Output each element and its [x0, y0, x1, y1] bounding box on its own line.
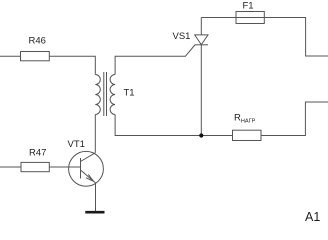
thyristor VS1 [195, 18, 208, 45]
wire T1 secondary top to VS1 gate [115, 45, 195, 75]
transformer T1 core [104, 72, 107, 116]
resistor Rнагр [233, 130, 262, 140]
node A junction dot [199, 133, 203, 137]
wire VS1 cathode to node A [200, 45, 202, 136]
wire input to R46 [0, 55, 21, 57]
ground [85, 211, 104, 214]
wire T1 primary bottom to VT1 collector [94, 115, 96, 153]
transformer T1 primary winding [95, 75, 100, 115]
wire R47 to VT1 base [49, 166, 80, 168]
svg-text:R46: R46 [29, 36, 46, 47]
resistor R46 [21, 52, 50, 61]
wire R46 to T1 primary top [49, 56, 95, 74]
svg-text:А1: А1 [305, 210, 320, 224]
transistor VT1 [69, 151, 104, 186]
wire VS1 anode to F1 and right top stub [201, 18, 328, 57]
wire T1 secondary bottom to node A [115, 115, 232, 136]
transformer T1 secondary winding [110, 75, 115, 115]
fuse F1 [236, 12, 264, 24]
resistor R47 [21, 162, 49, 171]
svg-text:VS1: VS1 [173, 31, 191, 42]
wire Rнагр to right stub [261, 102, 328, 136]
svg-text:VT1: VT1 [68, 139, 85, 150]
svg-text:F1: F1 [243, 1, 254, 12]
svg-text:R47: R47 [29, 148, 46, 159]
svg-text:RНАГР: RНАГР [234, 113, 256, 125]
wire input to R47 [0, 166, 21, 168]
svg-text:T1: T1 [124, 88, 135, 99]
wire VT1 emitter to ground [95, 183, 97, 211]
